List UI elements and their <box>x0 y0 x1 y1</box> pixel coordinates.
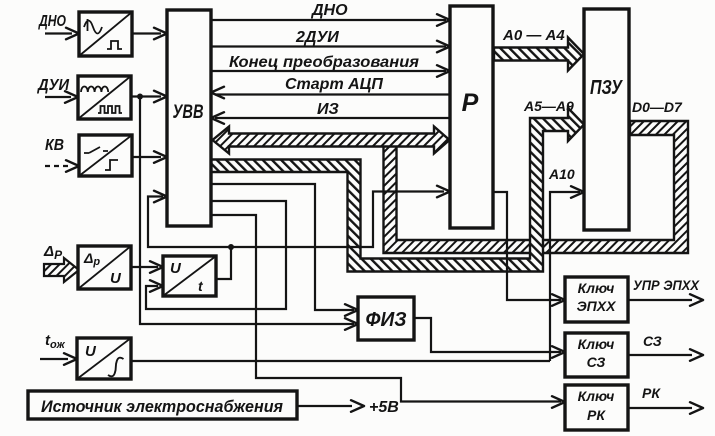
converter block КВ <box>79 135 132 176</box>
svg-text:СЗ: СЗ <box>587 354 606 370</box>
svg-text:Ключ: Ключ <box>578 388 615 404</box>
svg-text:ИЗ: ИЗ <box>317 101 339 118</box>
svg-text:РК: РК <box>642 385 661 401</box>
svg-text:А5—А9: А5—А9 <box>523 98 574 114</box>
wire УВВ to Ключ РК <box>211 215 561 402</box>
wire КВ converter to УВВ <box>132 156 161 158</box>
wire ДНО line УВВ to Р <box>211 19 446 21</box>
wire ФИЗ output to Ключ СЗ <box>414 318 561 352</box>
wire A10 to ПЗУ <box>550 192 580 361</box>
svg-text:УПР ЭПХХ: УПР ЭПХХ <box>633 278 700 293</box>
svg-text:РК: РК <box>587 407 606 423</box>
svg-text:Ключ: Ключ <box>578 336 615 352</box>
block Ключ СЗ <box>565 333 628 377</box>
address bus A0-A4 (hatched arrow) <box>494 38 584 71</box>
wire output УПР ЭПХХ <box>628 299 692 301</box>
svg-text:Источник электроснабжения: Источник электроснабжения <box>41 397 283 416</box>
svg-text:ДНО: ДНО <box>37 13 66 30</box>
wire input ДУИ <box>45 96 71 98</box>
svg-text:КВ: КВ <box>45 137 64 154</box>
svg-text:ΔР: ΔР <box>43 243 63 262</box>
svg-text:СЗ: СЗ <box>643 333 662 349</box>
block ФИЗ <box>358 297 414 340</box>
converter block ДНО <box>79 12 132 56</box>
wire ИЗ line Р to УВВ <box>215 117 450 119</box>
converter block U/t <box>163 256 216 296</box>
converter block U/integral (tож) <box>77 338 131 379</box>
svg-text:U: U <box>110 270 122 287</box>
wire Конец преобразования line УВВ to Р <box>211 70 446 72</box>
wire УВВ to U/t input 2 <box>146 201 286 309</box>
wire ДНО converter to УВВ <box>132 32 161 34</box>
svg-text:Конец преобразования: Конец преобразования <box>229 54 420 71</box>
wire input tож <box>40 358 68 360</box>
svg-text:ЭПХХ: ЭПХХ <box>577 298 617 314</box>
wire ДУИ converter to УВВ <box>131 95 161 97</box>
wire input КВ (dashed) <box>45 165 70 167</box>
block Р (processor) <box>450 6 493 228</box>
svg-text:Старт АЦП: Старт АЦП <box>285 76 383 93</box>
svg-text:tож: tож <box>45 332 66 351</box>
wire tож output to A10 <box>131 360 550 362</box>
address bus A5-A9 tree (hatched) <box>211 108 584 272</box>
svg-text:U: U <box>85 343 97 360</box>
data bus D0-D7 tree (hatched) <box>384 121 689 253</box>
converter block ДУИ <box>78 76 131 119</box>
wire ΔP/U to U/t input 1 <box>131 266 158 268</box>
svg-text:УВВ: УВВ <box>173 102 204 123</box>
wire output СЗ <box>628 354 692 356</box>
svg-text:Ключ: Ключ <box>578 280 615 296</box>
svg-text:А10: А10 <box>548 166 575 182</box>
converter block ΔP/U <box>78 246 131 289</box>
svg-text:ПЗУ: ПЗУ <box>590 77 623 99</box>
svg-text:+5В: +5В <box>369 399 399 416</box>
wire +5В from power supply <box>297 405 352 407</box>
node junction dot ДУИ output <box>137 94 143 100</box>
wire УВВ to ФИЗ input 1 <box>211 184 354 310</box>
svg-text:U: U <box>170 260 182 277</box>
bidirectional data bus УВВ-Р (hatched double arrow) <box>213 127 450 154</box>
wire 2ДУИ line УВВ to Р <box>211 45 446 47</box>
block Ключ РК <box>565 385 628 430</box>
svg-text:2ДУИ: 2ДУИ <box>295 29 339 46</box>
svg-text:ФИЗ: ФИЗ <box>366 309 407 331</box>
wire output РК <box>628 407 692 409</box>
block УВВ <box>167 10 211 226</box>
wire U/t output to node <box>216 247 231 279</box>
wire input ДНО <box>45 32 72 34</box>
svg-text:ДУИ: ДУИ <box>36 77 69 94</box>
node junction dot U/t output <box>228 244 234 250</box>
svg-text:Р: Р <box>462 89 479 117</box>
wire ДУИ branch to ФИЗ input 2 <box>140 97 354 325</box>
wire Старт АЦП line Р to УВВ <box>215 93 450 95</box>
wire Р to Ключ ЭПХХ <box>493 192 561 300</box>
svg-text:А0 — А4: А0 — А4 <box>502 27 565 44</box>
svg-text:ДНО: ДНО <box>310 2 348 19</box>
svg-text:D0—D7: D0—D7 <box>632 99 683 115</box>
block Источник электроснабжения <box>28 391 297 419</box>
block ПЗУ <box>584 9 629 230</box>
input arrow ΔP (hatched) <box>44 258 79 282</box>
block Ключ ЭПХХ <box>565 277 628 322</box>
wire U/t node to УВВ input and to Р input <box>148 192 444 248</box>
